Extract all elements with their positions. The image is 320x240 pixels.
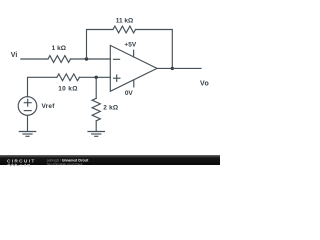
svg-text:Vi: Vi xyxy=(11,52,18,59)
svg-text:2 kΩ: 2 kΩ xyxy=(103,105,118,112)
wire R 1k to inverting input xyxy=(71,58,111,60)
op-amp 0V power pin xyxy=(133,80,135,87)
wire feedback right (down to output node) xyxy=(136,30,173,69)
resistor 2 kΩ xyxy=(92,98,100,121)
ground (below Vref) xyxy=(19,132,35,137)
ground (below R 2k) xyxy=(88,132,104,137)
voltage source Vref xyxy=(18,97,37,116)
wire node B down to R 2k xyxy=(95,77,97,98)
wire Vi to R 1k xyxy=(21,58,48,60)
svg-text:Vref: Vref xyxy=(42,103,56,110)
svg-text:10 kΩ: 10 kΩ xyxy=(58,85,78,92)
svg-text:1 kΩ: 1 kΩ xyxy=(52,45,66,52)
node output junction xyxy=(171,67,174,70)
resistor 1 kΩ xyxy=(48,56,71,63)
node junction B (non-inverting input) xyxy=(95,76,98,79)
wire Vref to ground xyxy=(27,115,29,131)
op-amp plus input mark xyxy=(114,75,120,81)
svg-text:http://circuitlab.com/c/7ae3: http://circuitlab.com/c/7ae3 xyxy=(47,162,83,166)
resistor 11 kΩ xyxy=(113,26,136,33)
wire Vref to R 10k (non-inverting net) xyxy=(28,77,57,97)
wire feedback left (up from node A) xyxy=(87,30,114,60)
svg-text:+5V: +5V xyxy=(124,41,136,48)
svg-text:0V: 0V xyxy=(125,90,134,97)
wire R 2k to ground xyxy=(95,121,97,132)
node junction A (inverting input) xyxy=(85,57,88,60)
svg-text:LAB: LAB xyxy=(21,163,32,168)
CircuitLab logo xyxy=(7,159,36,168)
op-amp +5V power pin xyxy=(133,50,135,57)
svg-text:Vo: Vo xyxy=(200,80,209,87)
footer credit text xyxy=(47,158,89,166)
wire R 10k to non-inverting input xyxy=(79,76,110,78)
resistor 10 kΩ xyxy=(57,74,80,81)
wire op-amp output xyxy=(157,67,201,69)
svg-text:11 kΩ: 11 kΩ xyxy=(116,17,134,24)
op-amp U1 triangle xyxy=(110,45,157,91)
op-amp minus input mark xyxy=(114,58,120,60)
